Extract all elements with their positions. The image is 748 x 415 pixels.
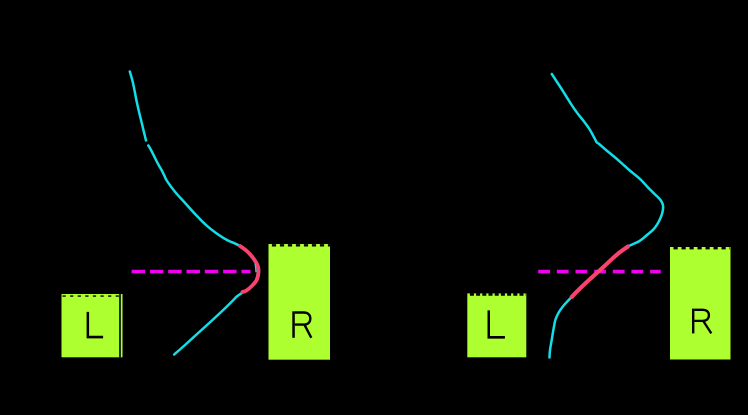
left panel: label L: [87, 312, 104, 339]
left panel: R bar (green): [269, 244, 331, 360]
right panel: highlighted steep segment (red): [572, 247, 628, 297]
left panel: L bar (green): [62, 294, 123, 357]
left panel: L bar dotted black top edge: [63, 295, 120, 297]
left panel: L bar inner black vertical line: [119, 294, 121, 357]
right panel: label R: [693, 309, 711, 334]
right panel: choice curve upper tail (cyan): [552, 74, 597, 143]
left panel: distribution curve upper tail (cyan): [130, 72, 146, 141]
left panel: distribution curve main bell (cyan): [148, 146, 258, 355]
left panel: thin cyan sliver at apex inner edge: [254, 264, 257, 273]
right panel: L bar dotted black top edge: [470, 293, 526, 296]
left panel: magenta dashed threshold line: [132, 270, 251, 274]
right panel: label L: [488, 310, 505, 338]
right panel: R bar (green): [670, 247, 731, 360]
left panel: R bar dotted black top edge: [272, 244, 330, 246]
right panel: choice curve main S body (cyan): [550, 144, 664, 358]
right panel: L bar (green): [467, 293, 526, 357]
right panel: R bar dotted black top edge: [674, 247, 731, 249]
left panel: label R: [294, 311, 312, 338]
left panel: highlighted apex segment (red): [240, 246, 259, 292]
right panel: magenta dashed threshold line: [538, 270, 661, 274]
